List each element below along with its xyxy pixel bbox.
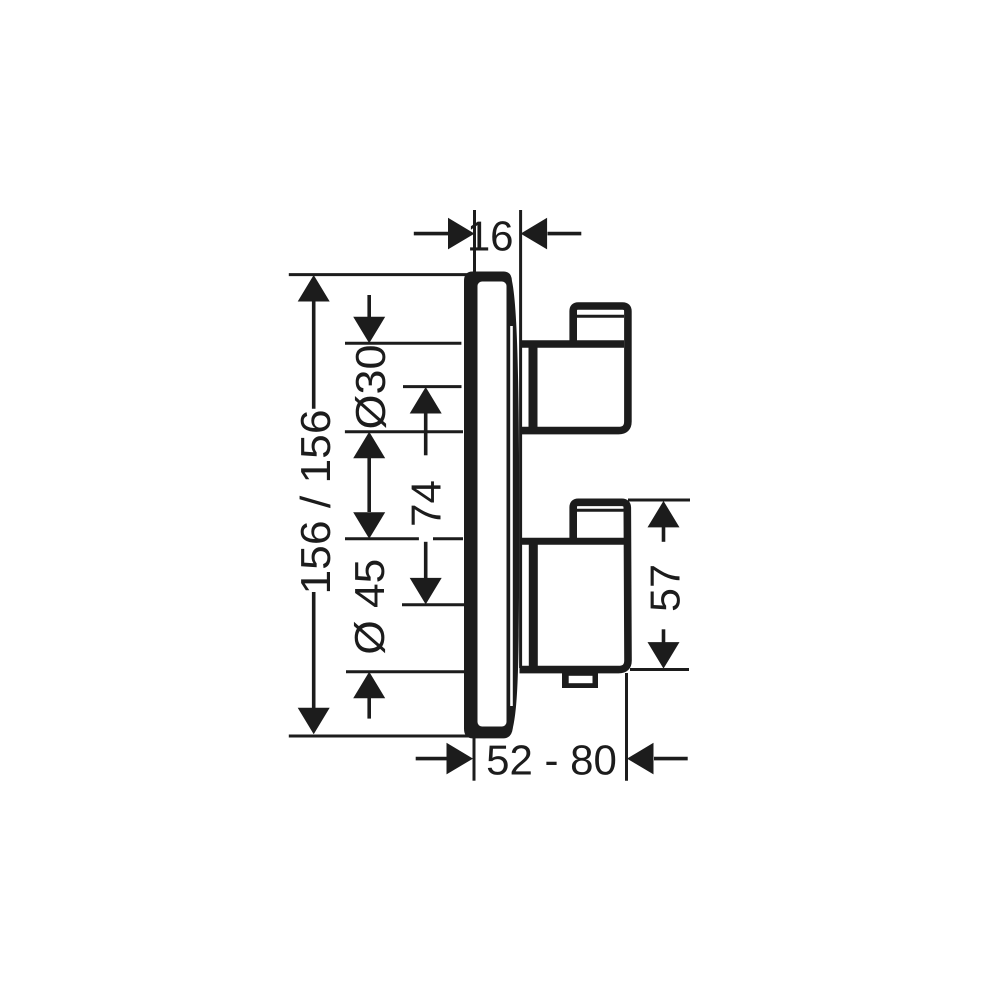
svg-text:57: 57 bbox=[641, 564, 688, 612]
svg-text:74: 74 bbox=[402, 480, 449, 527]
svg-text:156 / 156: 156 / 156 bbox=[292, 410, 339, 595]
svg-text:52 - 80: 52 - 80 bbox=[486, 737, 617, 784]
svg-text:Ø30: Ø30 bbox=[347, 345, 394, 430]
svg-text:Ø 45: Ø 45 bbox=[346, 559, 393, 655]
svg-text:16: 16 bbox=[467, 212, 514, 259]
